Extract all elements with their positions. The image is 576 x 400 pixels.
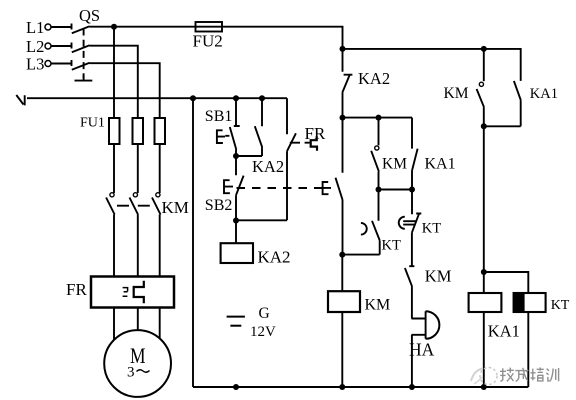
svg-text:KA2: KA2 — [252, 157, 284, 176]
svg-text:KT: KT — [551, 298, 570, 313]
svg-text:G: G — [259, 305, 270, 322]
svg-text:FR: FR — [305, 124, 326, 143]
svg-text:SB1: SB1 — [205, 108, 233, 125]
svg-text:KA1: KA1 — [530, 86, 558, 102]
svg-text:12V: 12V — [250, 324, 276, 340]
svg-text:SB2: SB2 — [205, 197, 233, 214]
svg-text:KA2: KA2 — [258, 248, 291, 267]
svg-text:HA: HA — [409, 339, 435, 359]
svg-text:KM: KM — [382, 155, 407, 172]
svg-text:FU1: FU1 — [80, 115, 105, 130]
svg-text:KT: KT — [382, 238, 401, 254]
svg-text:L3: L3 — [26, 54, 44, 73]
svg-text:FR: FR — [66, 280, 87, 299]
svg-text:KM: KM — [425, 267, 452, 286]
svg-text:KM: KM — [444, 85, 469, 102]
svg-text:KT: KT — [422, 220, 441, 236]
svg-text:L2: L2 — [26, 37, 44, 56]
svg-text:KA2: KA2 — [358, 69, 390, 88]
svg-text:KA1: KA1 — [488, 321, 520, 340]
svg-text:FU2: FU2 — [193, 31, 223, 50]
svg-text:KM: KM — [162, 198, 189, 217]
svg-text:QS: QS — [79, 6, 100, 25]
svg-text:L1: L1 — [26, 18, 44, 37]
svg-text:KM: KM — [365, 297, 391, 314]
svg-text:KA1: KA1 — [425, 155, 456, 172]
svg-text:3: 3 — [127, 364, 135, 380]
